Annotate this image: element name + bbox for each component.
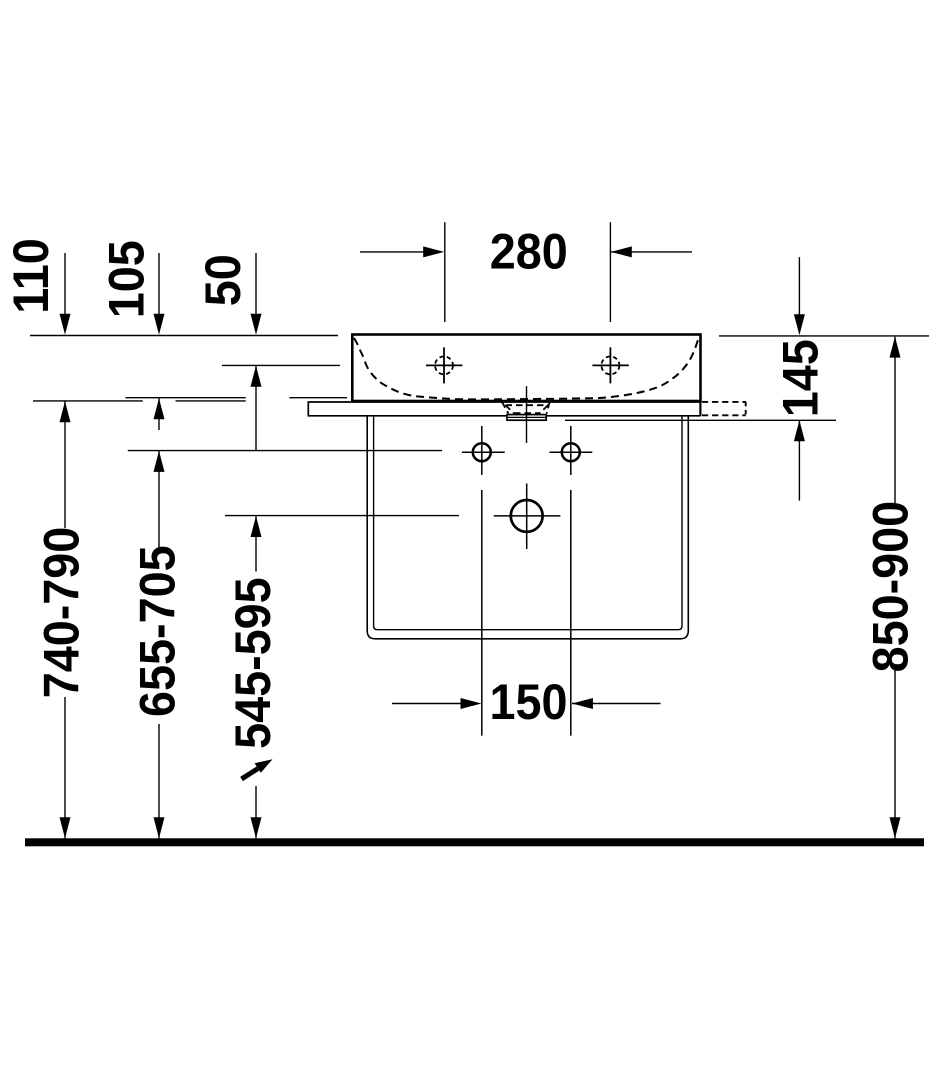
- mounting hole right: [550, 443, 593, 461]
- reference line faucet level: [222, 364, 340, 366]
- basin interior dashed curve: [354, 338, 699, 399]
- dimension 105 upper arrow: [154, 253, 165, 335]
- dimension 145 upper arrow: [794, 257, 805, 335]
- drain fitting dashed trapezoid: [502, 402, 550, 414]
- reference line sink-top level left: [30, 335, 338, 337]
- drain vertical centerline upper: [526, 386, 528, 443]
- svg-text:655-705: 655-705: [130, 545, 186, 717]
- dimension 545-595 lower line and arrow: [251, 786, 262, 838]
- dimension 850-900 top arrow: [890, 337, 901, 503]
- reference line mounting-hole level: [128, 450, 442, 452]
- dimension 850-900 lower line and arrow: [890, 670, 901, 838]
- svg-text:850-900: 850-900: [863, 501, 919, 673]
- dimension 110 upper arrow: [60, 253, 71, 335]
- dimension 145 lower arrow: [794, 420, 805, 500]
- dimension 110 lower arrow / 740-790 top arrow: [60, 401, 71, 528]
- countertop slab: [308, 402, 700, 416]
- mounting hole vertical centerline left (extension for 150): [481, 426, 483, 475]
- dimension 655-705 top arrow: [154, 451, 165, 549]
- svg-text:280: 280: [490, 224, 568, 280]
- reference line slab-bottom level: [33, 400, 143, 402]
- faucet hole right (dashed circle + crosshair): [592, 347, 628, 383]
- dimension 105 lower arrow: [154, 398, 165, 430]
- svg-text:740-790: 740-790: [34, 527, 90, 699]
- reference line console underside right: [565, 419, 836, 421]
- dimension 545-595 top arrow: [251, 516, 262, 572]
- dimension 150 left arrow: [392, 698, 482, 709]
- dimension 50 upper arrow: [251, 253, 262, 335]
- dimension 50 lower arrow: [251, 366, 262, 450]
- svg-text:145: 145: [773, 339, 829, 417]
- reference line sink-top level right: [719, 335, 929, 337]
- dimension 150 right arrow: [572, 698, 661, 709]
- faucet hole left (dashed circle + crosshair): [426, 347, 462, 383]
- ground line: [25, 838, 924, 846]
- svg-text:150: 150: [490, 675, 568, 731]
- svg-text:110: 110: [4, 238, 60, 313]
- svg-text:105: 105: [99, 240, 155, 318]
- siphon drain hole: [494, 484, 561, 550]
- reference line slab-top level: [126, 397, 246, 399]
- washbasin ceramic body outline: [352, 335, 700, 402]
- console frame outer: [367, 417, 688, 639]
- dimension 740-790 lower line and arrow: [60, 697, 71, 838]
- dimension 280 extension line left: [444, 222, 446, 322]
- svg-text:545-595: 545-595: [226, 577, 282, 749]
- mounting hole vertical centerline right (extension for 150): [570, 426, 572, 475]
- drain flange box: [507, 415, 546, 421]
- reference line drain level: [225, 515, 459, 517]
- dimension 280 right arrow: [611, 246, 692, 257]
- svg-text:50: 50: [196, 254, 252, 306]
- dimension 280 left arrow: [360, 246, 444, 257]
- dimension 280 extension line right: [609, 222, 611, 322]
- console frame inner: [374, 417, 682, 630]
- countertop dashed extension right: [702, 402, 746, 416]
- mounting hole left: [462, 443, 505, 461]
- dimension 545-595 elbow leader arrow: [242, 759, 273, 779]
- dimension 655-705 lower line and arrow: [154, 724, 165, 838]
